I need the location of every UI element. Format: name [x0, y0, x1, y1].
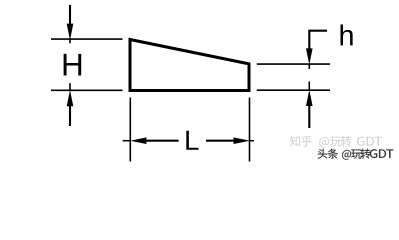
- H top extension line: [51, 38, 123, 40]
- L left extension line: [129, 98, 131, 162]
- h top extension line: [257, 63, 330, 65]
- h leader line: [309, 31, 327, 50]
- label L: [186, 131, 198, 150]
- h down arrow: [306, 48, 313, 69]
- H bottom extension line: [51, 89, 123, 91]
- L left arrow: [123, 137, 179, 144]
- label H: [64, 54, 82, 76]
- label h: [340, 24, 352, 45]
- trapezoid part outline: [130, 40, 249, 91]
- H up arrow: [67, 83, 74, 126]
- L right arrow: [206, 137, 254, 144]
- H down arrow: [67, 5, 74, 43]
- L right extension line: [249, 98, 251, 162]
- h bottom extension line: [257, 89, 330, 91]
- h up arrow: [306, 82, 313, 129]
- watermark toutiao @玩转GDT white emboss shadow: [319, 150, 395, 161]
- watermark zhihu @玩转GDT light gray: [290, 136, 382, 148]
- watermark toutiao @玩转GDT dark text: [318, 149, 394, 160]
